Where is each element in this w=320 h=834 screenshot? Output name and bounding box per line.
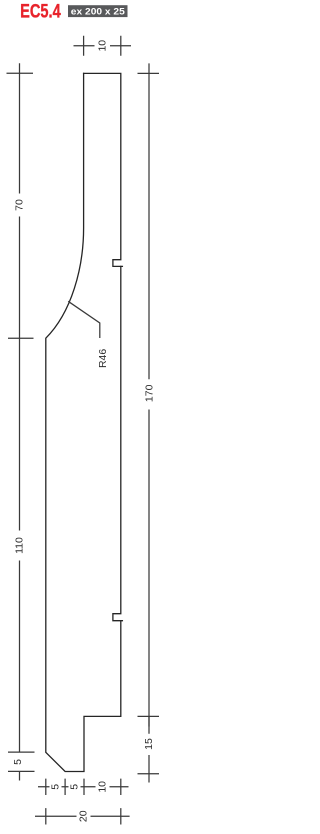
svg-text:110: 110: [13, 537, 25, 554]
svg-text:EC5.4: EC5.4: [20, 1, 61, 23]
svg-text:170: 170: [144, 384, 156, 402]
svg-text:10: 10: [96, 781, 108, 793]
svg-text:15: 15: [143, 738, 155, 750]
svg-text:10: 10: [96, 40, 108, 52]
svg-text:5: 5: [12, 759, 24, 765]
svg-text:R46: R46: [97, 349, 109, 368]
svg-text:5: 5: [69, 784, 81, 790]
svg-text:5: 5: [50, 784, 62, 790]
svg-text:70: 70: [13, 199, 25, 211]
svg-text:ex 200 x 25: ex 200 x 25: [71, 6, 126, 17]
svg-text:20: 20: [77, 810, 89, 822]
